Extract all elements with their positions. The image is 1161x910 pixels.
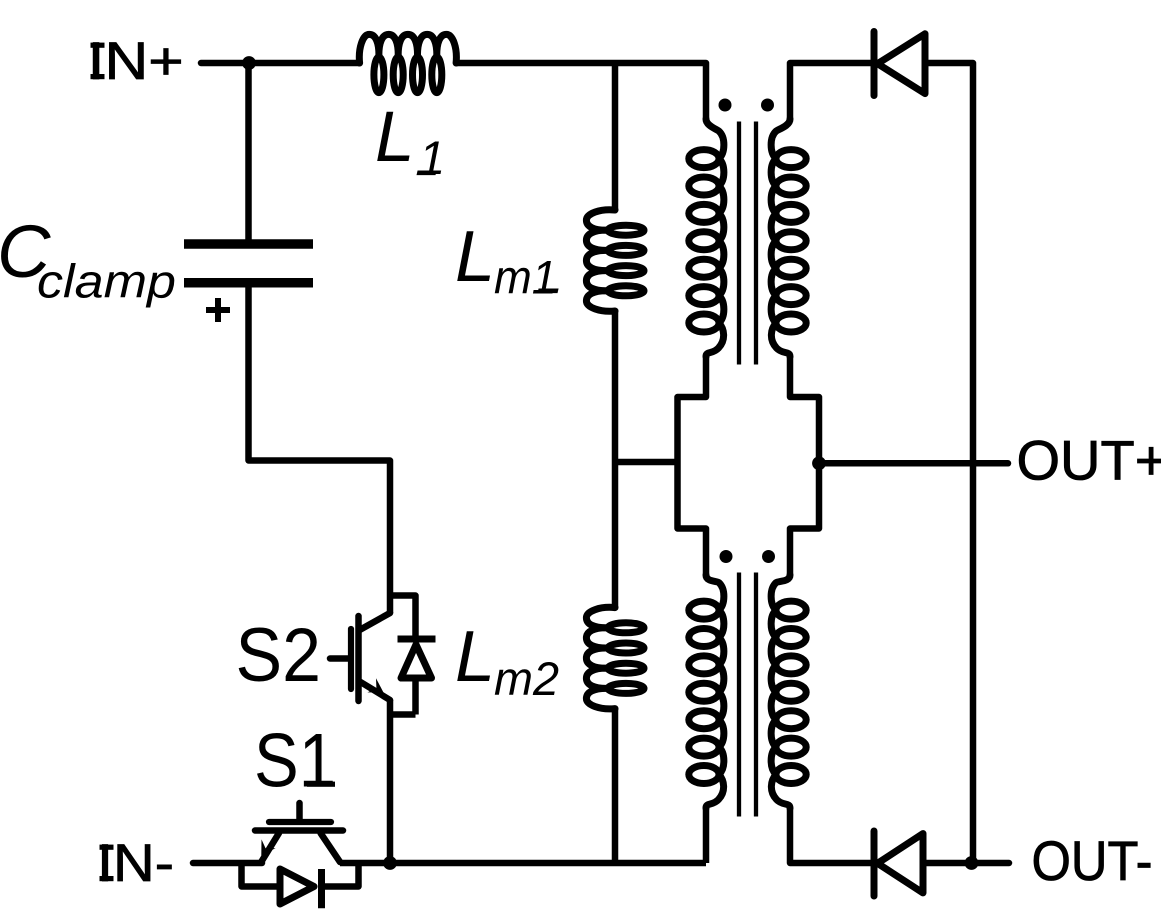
transistor S2 body bar bbox=[355, 616, 362, 701]
svg-text:IN+: IN+ bbox=[88, 32, 184, 91]
transistor S2 gate lead bbox=[330, 655, 348, 662]
svg-text:m1: m1 bbox=[494, 251, 557, 304]
transformer T1 core bbox=[737, 122, 741, 365]
transistor S1 gate bar bbox=[269, 819, 331, 825]
transistor S2 collector diagonal bbox=[361, 613, 391, 630]
svg-text:m2: m2 bbox=[494, 652, 559, 705]
wire T1 primary bottom step bbox=[678, 357, 707, 576]
transformer T1 polarity dot left bbox=[719, 99, 732, 112]
transistor S1 emitter diagonal bbox=[262, 833, 280, 862]
capacitor Cclamp bbox=[184, 239, 313, 249]
transistor S2 gate bar bbox=[348, 629, 354, 689]
svg-text:S1: S1 bbox=[254, 719, 336, 804]
junction node secondary center tap bbox=[812, 456, 826, 470]
wire T2 primary bottom lead bbox=[703, 808, 710, 863]
transistor S1 collector diagonal bbox=[321, 833, 341, 862]
transistor S1 body bar bbox=[255, 827, 343, 834]
wire OUT+ lead bbox=[819, 460, 1008, 467]
transformer T1 polarity dot right bbox=[761, 99, 774, 112]
wire Lm2 bottom to rail bbox=[612, 709, 619, 863]
svg-text:OUT-: OUT- bbox=[1032, 829, 1153, 892]
diode D2 cathode bar bbox=[871, 831, 878, 896]
wire Cclamp bottom lead to S2 bbox=[249, 287, 391, 613]
wire top rail from L1 to transformer bbox=[456, 63, 706, 119]
wire Cclamp top lead bbox=[245, 63, 252, 240]
transistor S2 emitter arrow bbox=[367, 678, 383, 692]
inductor L1 bbox=[359, 34, 456, 63]
svg-text:L: L bbox=[375, 98, 415, 177]
transformer T2 secondary winding bbox=[771, 575, 790, 808]
diode S1 cathode bar bbox=[318, 869, 325, 908]
junction node OUT- rail bbox=[965, 856, 979, 870]
wire S2 emitter to bottom rail bbox=[387, 700, 394, 863]
svg-text:1: 1 bbox=[419, 131, 445, 184]
diode D1 cathode bar bbox=[871, 32, 878, 96]
diode S1 triangle bbox=[280, 869, 314, 904]
wire D1 to right rail bbox=[924, 63, 973, 863]
transformer T2 core bbox=[737, 573, 741, 817]
inductor Lm2 bbox=[586, 607, 615, 709]
junction node IN+ / Cclamp bbox=[242, 56, 256, 70]
wire S1 diode loop left bbox=[242, 860, 281, 887]
diode D1 triangle bbox=[878, 34, 926, 94]
wire T1 secondary top lead bbox=[790, 63, 871, 119]
transistor S2 emitter diagonal bbox=[361, 682, 391, 700]
inductor Lm1 bbox=[586, 210, 615, 312]
diode S2 antiparallel cathode bar bbox=[398, 636, 436, 643]
junction node S1/S2/rail bbox=[383, 856, 397, 870]
svg-text:S2: S2 bbox=[236, 613, 322, 698]
wire Lm mid and node to primary bbox=[612, 311, 619, 608]
diode S2 antiparallel triangle bbox=[401, 645, 432, 679]
wire T1 secondary bottom step bbox=[790, 357, 819, 576]
transformer T2 polarity dot left bbox=[720, 550, 733, 563]
transformer T2 polarity dot right bbox=[762, 550, 775, 563]
svg-text:clamp: clamp bbox=[37, 255, 176, 308]
svg-text:OUT+: OUT+ bbox=[1017, 429, 1161, 492]
transistor S1 emitter arrow bbox=[261, 839, 275, 855]
wire IN- lead bbox=[193, 860, 262, 867]
wire S1 diode loop right bbox=[322, 860, 359, 887]
transformer T1 secondary winding bbox=[771, 119, 790, 357]
wire bottom rail primary side bbox=[340, 860, 706, 867]
wire T2 secondary bottom lead bbox=[790, 808, 871, 863]
svg-text:IN-: IN- bbox=[97, 834, 174, 893]
wire IN+ lead and top rail left bbox=[201, 60, 360, 67]
wire Lm branch top bbox=[612, 63, 619, 210]
wire OUT- lead bbox=[923, 860, 1009, 867]
capacitor polarity + bbox=[206, 307, 230, 313]
wire S2 diode branch bottom bbox=[412, 681, 419, 715]
diode D2 triangle bbox=[878, 834, 924, 893]
transformer T2 primary winding bbox=[706, 575, 724, 808]
transistor S1 gate stub bbox=[296, 803, 303, 819]
transformer T1 primary winding bbox=[706, 119, 724, 357]
svg-text:L: L bbox=[455, 217, 495, 297]
svg-text:L: L bbox=[455, 617, 495, 697]
wire S2 diode branch top bbox=[390, 596, 416, 637]
